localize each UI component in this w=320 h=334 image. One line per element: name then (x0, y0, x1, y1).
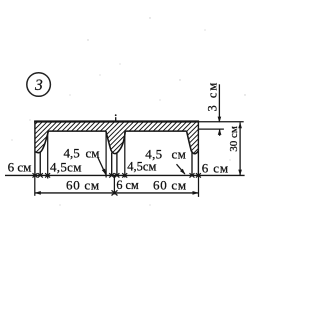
svg-text:60 см: 60 см (153, 178, 187, 193)
svg-text:30 см: 30 см (228, 126, 240, 152)
svg-text:6 см: 6 см (8, 160, 32, 175)
svg-text:4,5см: 4,5см (50, 159, 82, 174)
svg-text:6 см: 6 см (116, 178, 139, 192)
svg-text:3 см: 3 см (206, 81, 220, 112)
svg-text:60 см: 60 см (66, 178, 100, 193)
svg-text:4,5см: 4,5см (127, 159, 156, 173)
svg-text:3: 3 (34, 77, 43, 94)
svg-text:4,5 см: 4,5 см (64, 146, 100, 161)
svg-text:6 см: 6 см (202, 160, 229, 175)
